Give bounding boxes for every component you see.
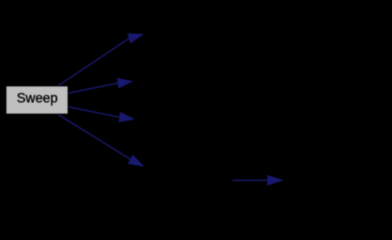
svg-text:Sweep: Sweep — [17, 90, 58, 105]
